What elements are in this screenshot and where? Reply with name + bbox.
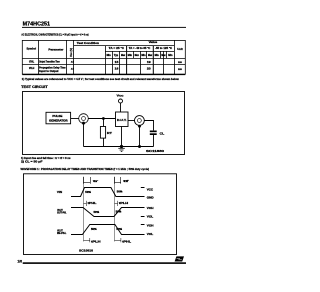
dimension tPHL [84, 201, 87, 206]
svg-text:tPHL: tPHL [122, 239, 131, 243]
svg-text:VOL: VOL [147, 214, 154, 218]
wire DUT to ground [121, 127, 123, 147]
input connector J1 [79, 114, 89, 125]
svg-text:SC10810: SC10810 [79, 248, 94, 252]
svg-text:Max: Max [121, 54, 126, 57]
out-of-phase output trace [71, 208, 145, 217]
capacitor CL [150, 131, 165, 136]
svg-text:tPHL: tPHL [88, 201, 97, 205]
wire generator to input connector [71, 118, 79, 120]
node input junction [102, 117, 105, 120]
wire output connector down to rail [139, 125, 141, 146]
pulse generator box [46, 112, 71, 124]
out-of-phase VOL dash [141, 216, 145, 218]
svg-text:Unit: Unit [177, 47, 182, 51]
svg-text:M74HC251: M74HC251 [23, 22, 51, 28]
svg-text:CL: CL [160, 131, 165, 135]
svg-text:PULSE: PULSE [52, 115, 62, 118]
svg-text:Parameter: Parameter [48, 48, 64, 52]
table grid [22, 40, 185, 75]
svg-text:Min: Min [155, 54, 160, 57]
table data rows [29, 60, 183, 73]
svg-text:Min: Min [128, 54, 133, 57]
ground rail wire [84, 146, 154, 148]
svg-text:VOH: VOH [147, 206, 154, 210]
svg-text:1) Typical values are referenc: 1) Typical values are referenced to VCC … [22, 77, 180, 81]
svg-text:-55 to 125 °C: -55 to 125 °C [155, 46, 172, 50]
svg-text:Vcc (V): Vcc (V) [70, 48, 73, 57]
page background [0, 0, 207, 292]
wire resistor to rail [103, 138, 105, 146]
svg-text:Input to Output: Input to Output [39, 69, 58, 73]
reference line at input falling edge [114, 177, 116, 242]
output connector J2 [135, 116, 145, 126]
svg-text:50%: 50% [94, 212, 100, 214]
circuit frame [23, 92, 185, 155]
wire junction to resistor [103, 119, 105, 127]
svg-text:Max: Max [161, 54, 166, 57]
svg-text:Propagation Delay Time: Propagation Delay Time [39, 65, 66, 69]
in-phase VOH dash [141, 224, 145, 226]
svg-text:TEST CIRCUIT: TEST CIRCUIT [21, 85, 48, 89]
footer rule [23, 262, 186, 264]
resistor RT [100, 127, 112, 139]
svg-text:VOL: VOL [147, 232, 154, 236]
svg-text:VIN: VIN [57, 190, 62, 194]
wire capacitor to rail [153, 135, 155, 147]
svg-text:50%: 50% [91, 229, 97, 231]
ground [118, 148, 125, 151]
svg-text:tPLH: tPLH [29, 66, 34, 70]
svg-text:Output Transition Time: Output Transition Time [39, 60, 60, 64]
header rule [22, 26, 186, 29]
dimension tPLH bottom [84, 238, 90, 242]
wire input connector down to rail [83, 123, 85, 147]
svg-text:VCC: VCC [147, 187, 153, 191]
dimension tf on falling edge [115, 177, 121, 184]
wire Vcc to DUT [120, 103, 122, 112]
svg-text:1/6: 1/6 [17, 259, 22, 263]
svg-text:Max: Max [135, 54, 140, 57]
input waveform trace [71, 188, 145, 197]
wire DUT to output connector [128, 120, 135, 122]
svg-text:SC11830: SC11830 [146, 149, 165, 153]
svg-text:Symbol: Symbol [27, 47, 37, 51]
svg-text:Min: Min [168, 54, 173, 57]
svg-text:OUT-PH.: OUT-PH. [57, 213, 67, 215]
svg-text:tPLH: tPLH [91, 239, 100, 243]
svg-text:IN-PH.: IN-PH. [57, 233, 67, 235]
op-amp U1 D.U.T. box [116, 112, 129, 127]
svg-text:AC ELECTRICAL CHARACTERISTICS: AC ELECTRICAL CHARACTERISTICS (CL = 50 p… [21, 33, 88, 37]
svg-text:WAVEFORM 1 : PROPAGATION DELAY: WAVEFORM 1 : PROPAGATION DELAY TIMES AND… [21, 167, 150, 171]
node rail junction below connector [138, 145, 141, 148]
node DUT ground junction [120, 145, 123, 148]
svg-text:GENERATOR: GENERATOR [49, 119, 68, 122]
svg-text:TA = -40 to 85 °C: TA = -40 to 85 °C [129, 46, 151, 50]
wire input connector to DUT [88, 118, 115, 120]
svg-text:Value: Value [149, 40, 158, 44]
svg-text:Vcc: Vcc [117, 94, 125, 98]
wire output connector to capacitor [144, 121, 153, 131]
svg-text:RT: RT [107, 131, 112, 135]
svg-text:50%: 50% [85, 192, 91, 194]
svg-text:VOUT: VOUT [57, 208, 63, 212]
dimension tPHL bottom [115, 238, 121, 242]
svg-text:Max: Max [148, 54, 153, 57]
waveform frame [24, 174, 177, 255]
ST logo [175, 256, 184, 261]
node output connector bottom junction [138, 125, 141, 128]
svg-text:2) CL = 50 pF: 2) CL = 50 pF [21, 159, 43, 163]
svg-text:50%: 50% [116, 211, 122, 213]
reference line at input rising edge [83, 177, 85, 242]
svg-text:tf: tf [123, 179, 128, 183]
svg-text:tr: tr [93, 179, 98, 183]
svg-text:tTHL: tTHL [29, 60, 35, 64]
dimension tPLH [115, 201, 118, 206]
svg-text:Min: Min [141, 54, 146, 57]
svg-text:VOUT: VOUT [57, 228, 63, 232]
Vcc terminal circle [119, 99, 123, 103]
svg-text:tPLH: tPLH [119, 201, 128, 205]
svg-text:VOH: VOH [147, 223, 154, 227]
svg-text:D.U.T.: D.U.T. [117, 118, 127, 122]
table header texts [27, 40, 183, 57]
svg-text:50%: 50% [117, 192, 123, 194]
svg-text:Min: Min [107, 54, 112, 57]
svg-text:GND: GND [147, 196, 154, 200]
svg-text:Typ: Typ [114, 54, 119, 57]
input Vcc level dash [141, 187, 145, 189]
in-phase output trace [71, 225, 145, 235]
svg-text:50%: 50% [116, 229, 122, 231]
svg-text:TA = 25 °C: TA = 25 °C [109, 46, 124, 50]
dimension tr on rising edge [84, 177, 91, 184]
svg-text:Test Condition: Test Condition [77, 41, 100, 45]
